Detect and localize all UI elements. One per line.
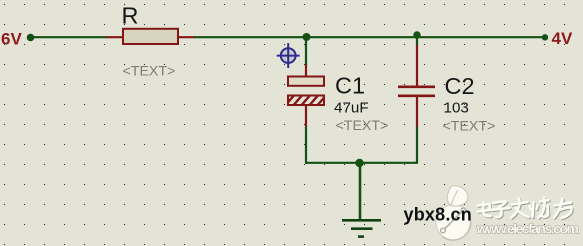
glyph fa	[512, 199, 529, 218]
wire node B to 4V terminal	[417, 36, 545, 38]
glyph you	[554, 199, 572, 218]
wire 6V terminal to resistor R	[30, 36, 107, 38]
wire capacitor C1 to bottom rail	[305, 127, 307, 164]
capacitor C1 positive plate	[288, 77, 324, 86]
capacitor C1 top pin	[305, 65, 307, 78]
capacitor C2 bottom pin	[416, 97, 418, 128]
bottom rail wire	[305, 162, 418, 164]
junction node B dot	[413, 31, 420, 38]
capacitor C1 negative plate hatched	[284, 93, 336, 107]
capacitor C1 bottom pin	[305, 105, 307, 128]
wire node A to node B	[306, 36, 417, 38]
glyph dian	[478, 203, 491, 217]
wire node A down to capacitor C1	[305, 37, 307, 66]
capacitor C2 top plate	[398, 86, 435, 89]
svg-text:C1: C1	[335, 73, 365, 99]
ground symbol	[342, 220, 381, 236]
node 6V terminal dot	[27, 34, 35, 42]
svg-text:103: 103	[444, 100, 469, 117]
wire node B down to capacitor C2	[416, 36, 418, 46]
svg-text:<TEXT>: <TEXT>	[336, 118, 389, 134]
svg-text:4V: 4V	[552, 29, 573, 48]
wire node G to ground	[359, 163, 362, 220]
origin marker crosshair	[277, 43, 300, 68]
resistor R body	[123, 29, 178, 44]
capacitor C2 top pin	[416, 45, 418, 86]
glyph shao	[530, 198, 549, 218]
node 4V terminal dot	[542, 34, 548, 40]
capacitor C2 bottom plate	[398, 95, 435, 98]
svg-text:R: R	[122, 3, 139, 29]
glyph zi	[492, 201, 510, 217]
resistor R right pin	[178, 36, 195, 38]
svg-text:ybx8.cn: ybx8.cn	[404, 205, 472, 225]
elecfans watermark logo	[436, 186, 471, 241]
wire resistor R to node A	[194, 36, 307, 38]
elecfans watermark chinese text	[478, 198, 572, 219]
junction node G dot	[355, 159, 363, 167]
resistor R left pin	[106, 36, 123, 38]
junction node A dot	[303, 33, 311, 41]
svg-text:<TEXT>: <TEXT>	[123, 64, 176, 80]
svg-text:<TEXT>: <TEXT>	[443, 119, 496, 135]
svg-text:C2: C2	[445, 73, 475, 99]
svg-text:47uF: 47uF	[334, 100, 369, 117]
wire capacitor C2 to bottom rail	[416, 127, 418, 164]
svg-text:6V: 6V	[1, 30, 22, 49]
svg-text:www.elecfans.com: www.elecfans.com	[476, 220, 579, 236]
